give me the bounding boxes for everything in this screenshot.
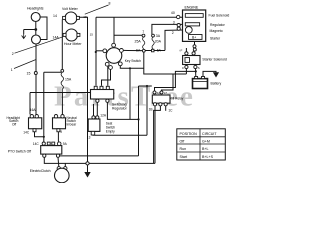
svg-text:ElectricClutch: ElectricClutch (30, 169, 51, 173)
svg-text:7: 7 (142, 30, 144, 34)
svg-text:InGear: InGear (67, 123, 78, 127)
svg-text:1: 1 (11, 68, 13, 72)
svg-text:PTO Switch Off: PTO Switch Off (8, 150, 31, 154)
svg-text:2: 2 (172, 31, 174, 35)
svg-text:ENGINE: ENGINE (185, 6, 199, 10)
svg-text:1B: 1B (149, 107, 153, 111)
svg-text:B+L+S: B+L+S (202, 155, 214, 159)
svg-text:Headlights: Headlights (27, 7, 44, 11)
svg-text:6A: 6A (136, 49, 141, 53)
svg-text:16A: 16A (30, 108, 37, 112)
svg-text:Regulator: Regulator (112, 107, 128, 111)
svg-text:9: 9 (60, 130, 62, 134)
svg-text:3: 3 (173, 21, 175, 25)
svg-text:Run: Run (180, 147, 187, 151)
svg-text:14C: 14C (33, 142, 40, 146)
svg-text:Kill Relay: Kill Relay (170, 96, 184, 100)
svg-text:Regulator: Regulator (210, 23, 226, 27)
svg-text:POSITION: POSITION (180, 132, 198, 136)
svg-text:Starter Solenoid: Starter Solenoid (202, 57, 226, 61)
svg-text:CIRCUIT: CIRCUIT (202, 132, 217, 136)
svg-text:S: S (198, 66, 200, 70)
svg-text:15A: 15A (65, 78, 72, 82)
svg-text:8: 8 (109, 2, 111, 6)
svg-text:25A: 25A (135, 40, 142, 44)
svg-text:Key Switch: Key Switch (125, 59, 141, 63)
svg-text:Starter: Starter (210, 37, 221, 41)
svg-text:↑F: ↑F (179, 49, 183, 53)
svg-text:Volt Meter: Volt Meter (62, 7, 79, 11)
svg-text:2: 2 (12, 52, 14, 56)
svg-text:15: 15 (27, 72, 31, 76)
svg-text:14A: 14A (53, 36, 60, 40)
svg-text:6A: 6A (157, 49, 162, 53)
svg-text:Magneto: Magneto (210, 29, 223, 33)
svg-text:Off: Off (180, 140, 185, 144)
svg-text:2A: 2A (164, 91, 168, 95)
svg-text:12A: 12A (100, 113, 107, 117)
svg-text:3A: 3A (157, 91, 161, 95)
svg-text:13: 13 (87, 135, 91, 139)
svg-text:G+M: G+M (202, 140, 210, 144)
svg-text:20A: 20A (155, 40, 162, 44)
svg-text:Hour Meter: Hour Meter (64, 42, 82, 46)
svg-text:15: 15 (90, 33, 94, 37)
svg-text:14: 14 (53, 14, 57, 18)
svg-text:1C: 1C (168, 108, 173, 112)
svg-text:40: 40 (171, 11, 175, 15)
svg-text:14C: 14C (23, 130, 30, 134)
svg-text:Fuel Solenoid: Fuel Solenoid (209, 14, 230, 18)
svg-text:Battery: Battery (211, 81, 222, 85)
svg-text:Off: Off (12, 123, 16, 127)
svg-text:B+L: B+L (202, 147, 209, 151)
svg-text:Start: Start (180, 155, 188, 159)
svg-text:18: 18 (83, 15, 87, 19)
svg-text:3A: 3A (156, 34, 161, 38)
svg-text:B+: B+ (192, 36, 196, 40)
svg-text:Empty: Empty (106, 130, 115, 134)
